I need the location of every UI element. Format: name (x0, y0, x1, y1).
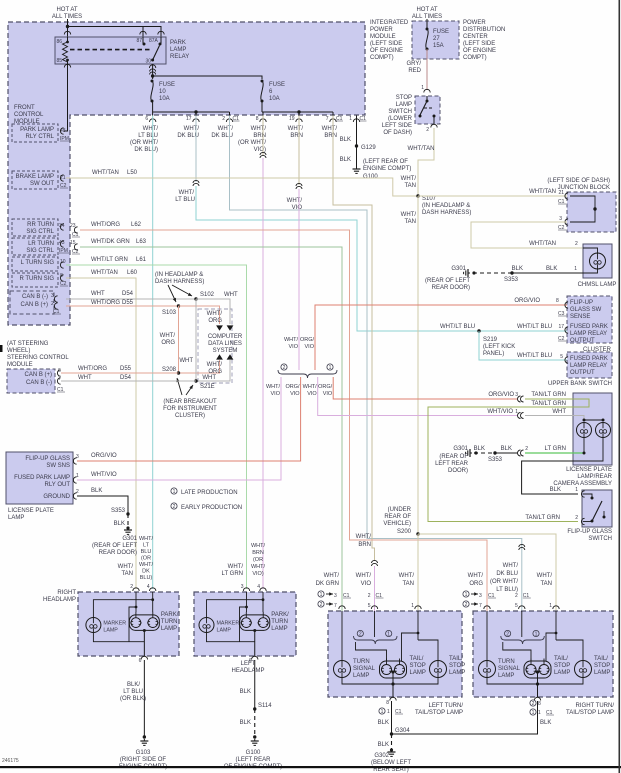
svg-text:G103: G103 (136, 750, 151, 756)
svg-text:FUSE: FUSE (433, 29, 449, 35)
right headlamp bottom pin (141, 656, 147, 659)
junction dot G103 (143, 735, 146, 738)
svg-text:WHT/: WHT/ (139, 536, 154, 542)
FCM sub-box LR TURN SIG CTRL pin 43 / 15 C2 (12, 238, 58, 255)
connector on relay output (150, 69, 156, 72)
right tail lamp brace (501, 636, 545, 644)
svg-text:STOP: STOP (449, 663, 465, 669)
front control module (FCM) body fill (8, 22, 365, 325)
svg-text:MODULE: MODULE (14, 119, 40, 125)
svg-text:(LOWER: (LOWER (388, 116, 413, 122)
flip-up switch pin2 arc (581, 518, 584, 524)
svg-text:G100: G100 (246, 750, 261, 756)
svg-text:(UNDER: (UNDER (388, 507, 412, 513)
svg-text:1: 1 (421, 85, 424, 91)
svg-text:LAMP: LAMP (103, 628, 118, 634)
svg-text:FUSED PARK: FUSED PARK (570, 356, 608, 362)
svg-text:2: 2 (222, 116, 225, 122)
svg-text:SIG CTRL: SIG CTRL (26, 248, 54, 254)
svg-text:LAMP: LAMP (396, 102, 412, 108)
svg-text:TAN: TAN (404, 219, 416, 225)
svg-text:LAMP: LAMP (8, 515, 24, 521)
svg-text:LAMP: LAMP (161, 626, 177, 632)
svg-text:WHT/: WHT/ (228, 564, 244, 570)
svg-text:1: 1 (387, 632, 390, 638)
svg-text:TURN: TURN (353, 659, 370, 665)
svg-text:5: 5 (560, 354, 563, 360)
svg-text:RIGHT: RIGHT (57, 590, 76, 596)
svg-text:L50: L50 (127, 170, 138, 176)
connector col4 (260, 152, 266, 155)
left tail lamp wire pin1 down (417, 611, 419, 640)
svg-text:WHT/: WHT/ (184, 126, 200, 132)
relay coil bottom pin arc (64, 64, 70, 67)
svg-text:TAN/LT GRN: TAN/LT GRN (531, 392, 566, 398)
FCM sub-box RR TURN SIG CTRL pin 34 / 23 C1 (12, 219, 58, 236)
svg-text:PARK/: PARK/ (271, 612, 289, 618)
wire BLK right tail to G304 (392, 701, 538, 734)
wire BLK CHMSL to S353b (512, 272, 583, 274)
svg-text:HOT AT: HOT AT (416, 7, 437, 13)
left tail lamp circled variants (357, 630, 363, 636)
left tail lamp wire pin5 into brace (374, 611, 376, 637)
ground G302 (391, 750, 393, 752)
svg-text:G301: G301 (451, 266, 466, 272)
junction S107 (416, 194, 419, 197)
FCM dashed border (8, 22, 365, 325)
svg-text:TURN: TURN (498, 659, 515, 665)
svg-text:LAMP/REAR: LAMP/REAR (577, 474, 612, 480)
connector col5 (296, 183, 302, 186)
wire rail to fuses (153, 76, 262, 79)
svg-text:(LEFT KICK: (LEFT KICK (483, 344, 515, 350)
svg-text:BLK: BLK (378, 742, 389, 748)
svg-text:MARKER: MARKER (217, 621, 240, 627)
svg-text:STOP: STOP (410, 663, 426, 669)
svg-text:15A: 15A (433, 43, 444, 49)
svg-text:BRN: BRN (358, 542, 371, 548)
svg-text:VIO): VIO) (252, 571, 263, 577)
power distribution center box (412, 21, 459, 59)
wire relay 30 output (152, 64, 154, 76)
svg-text:(AT STEERING: (AT STEERING (7, 341, 49, 347)
left headlamp park/turn dual bulb (240, 615, 270, 631)
svg-text:TAIL/: TAIL/ (410, 656, 424, 662)
license plate lamp box (6, 452, 73, 504)
svg-text:2: 2 (76, 489, 79, 495)
svg-text:PARK LAMP: PARK LAMP (20, 127, 54, 133)
svg-text:CLUSTER): CLUSTER) (175, 413, 205, 419)
svg-text:MODULE: MODULE (7, 362, 33, 368)
svg-text:2: 2 (283, 365, 286, 371)
svg-text:WHT/: WHT/ (143, 126, 159, 132)
wire ORG/VIO cluster pin8 to variant brace (315, 305, 567, 370)
svg-text:LT BLU: LT BLU (175, 197, 195, 203)
connector right tail pin5 wire (519, 544, 525, 547)
svg-text:LAMP: LAMP (170, 47, 186, 53)
svg-text:HEADLAMP: HEADLAMP (43, 597, 76, 603)
right tail lamp wire pin1 to right bulb (556, 640, 583, 661)
wire LT GRN to camera (525, 452, 584, 454)
wire BLK license ground to S353 (77, 496, 128, 514)
wire WHT/DK BLU col3 to right tail pin5 (230, 116, 522, 612)
svg-text:G304: G304 (395, 728, 410, 734)
svg-text:JUNCTION BLOCK: JUNCTION BLOCK (558, 185, 610, 191)
right tail lamp pin3 label (463, 591, 469, 597)
svg-text:WHT: WHT (224, 292, 238, 298)
variant brace (278, 370, 337, 378)
svg-text:FUSE: FUSE (159, 82, 175, 88)
right tail lamp bottom pin (534, 697, 540, 700)
svg-text:PARK: PARK (170, 40, 186, 46)
svg-text:SW OUT: SW OUT (30, 181, 54, 187)
svg-text:8: 8 (256, 116, 259, 122)
svg-text:(REAR OF LEFT: (REAR OF LEFT (425, 278, 470, 284)
svg-text:S21E: S21E (200, 384, 215, 390)
svg-text:G302: G302 (374, 753, 389, 759)
svg-text:WHT/: WHT/ (401, 176, 417, 182)
svg-text:BLK: BLK (240, 720, 251, 726)
svg-text:WHT/: WHT/ (218, 126, 234, 132)
svg-text:G100: G100 (363, 174, 378, 180)
svg-text:SIGNAL: SIGNAL (498, 666, 521, 672)
right headlamp stub pin a to ground drop (129, 607, 136, 642)
svg-text:HEADLAMP: HEADLAMP (231, 668, 264, 674)
svg-text:VEHICLE): VEHICLE) (383, 521, 411, 527)
left headlamp wire pin b to park filament (262, 592, 264, 612)
relay armature (153, 46, 160, 61)
svg-text:RELAY: RELAY (170, 54, 189, 60)
triangles up (216, 354, 223, 359)
svg-text:LICENSE PLATE: LICENSE PLATE (566, 467, 612, 473)
junction S219 (477, 329, 480, 332)
svg-text:S353: S353 (488, 457, 503, 463)
FCM sub-box CAN B (10, 291, 54, 314)
svg-text:6: 6 (145, 116, 148, 122)
wire BLK dashed S353b to G301b (472, 272, 512, 274)
svg-text:FLIP-UP: FLIP-UP (570, 300, 593, 306)
junction S114 (253, 707, 256, 710)
svg-text:BLK: BLK (340, 137, 351, 143)
right headlamp bottom rail (93, 633, 144, 642)
svg-text:BLU): BLU) (140, 575, 153, 581)
svg-text:2: 2 (575, 515, 578, 521)
right headlamp marker lamp bulb (86, 618, 101, 633)
svg-text:OF DASH): OF DASH) (383, 130, 412, 136)
circled 1 right (327, 364, 333, 370)
svg-text:LAMP: LAMP (353, 673, 369, 679)
FCM sub-box R TURN SIG pin 8 C2 (12, 273, 58, 287)
wire BLK dashed G304 to G302 (391, 734, 393, 750)
right headlamp park/turn dual bulb (129, 615, 159, 631)
svg-text:TAN: TAN (402, 581, 414, 587)
svg-text:VIO: VIO (289, 344, 299, 350)
stop lamp switch box (415, 96, 440, 124)
svg-text:(REAR OF LEFT: (REAR OF LEFT (92, 543, 137, 549)
svg-text:TAN: TAN (404, 183, 416, 189)
junction S208 (177, 371, 180, 374)
svg-text:REAR DOOR): REAR DOOR) (432, 285, 470, 291)
junction S353 (second) (510, 271, 513, 274)
FCM sub-box PARK LAMP RLY CTRL pin 48 (12, 124, 58, 142)
FCM output pin 7 (330, 119, 336, 122)
svg-text:WHT/: WHT/ (118, 564, 134, 570)
svg-text:WHT/TAN: WHT/TAN (92, 170, 119, 176)
svg-text:BLK: BLK (240, 689, 251, 695)
relay contact 87A (159, 43, 162, 46)
left headlamp wire pin a to turn filament (246, 592, 248, 612)
cluster pin 8 C3 (565, 302, 568, 308)
right headlamp box (78, 592, 179, 656)
junction S102 (194, 297, 197, 300)
connector left tail pin2 wire (372, 560, 378, 563)
svg-text:LEFT REAR: LEFT REAR (435, 461, 469, 467)
svg-text:SIG CTRL: SIG CTRL (26, 229, 54, 235)
svg-text:SYSTEM: SYSTEM (213, 348, 238, 354)
wire WHT/ORG from box to S208 (179, 360, 220, 373)
svg-text:CAN B (+): CAN B (+) (24, 372, 52, 378)
svg-text:8: 8 (538, 701, 541, 707)
FCM output pin 6 (150, 119, 156, 122)
wire WHT/TAN S200 to left tail pin1 (417, 534, 419, 611)
connector camera pin1 (518, 413, 521, 419)
svg-text:WHT/DK GRN: WHT/DK GRN (91, 239, 130, 245)
svg-text:2: 2 (359, 632, 362, 638)
right tail lamp tail/stop bulb 2 (575, 661, 592, 678)
svg-text:VIO: VIO (271, 391, 281, 397)
svg-text:VIO: VIO (323, 391, 333, 397)
wire WHT from box to S21E (196, 360, 230, 381)
svg-text:3: 3 (51, 293, 54, 299)
svg-text:TAN/LT GRN: TAN/LT GRN (531, 401, 566, 407)
svg-text:19: 19 (289, 116, 295, 122)
svg-text:(OR WHT/: (OR WHT/ (238, 140, 266, 146)
svg-text:5: 5 (515, 603, 518, 609)
note early production (171, 503, 177, 509)
relay pin 30 bottom arc (149, 65, 155, 68)
svg-text:TURN: TURN (271, 619, 288, 625)
svg-text:TAIL/: TAIL/ (554, 656, 568, 662)
svg-text:L62: L62 (131, 222, 142, 228)
svg-text:DOOR): DOOR) (448, 468, 468, 474)
svg-text:7: 7 (326, 116, 329, 122)
svg-text:TAIL/STOP LAMP: TAIL/STOP LAMP (566, 710, 614, 716)
svg-text:SWITCH: SWITCH (588, 536, 612, 542)
svg-text:BLK: BLK (512, 266, 523, 272)
svg-text:2: 2 (525, 446, 528, 452)
svg-text:DK BLU): DK BLU) (134, 147, 158, 153)
svg-text:RLY CTRL: RLY CTRL (26, 134, 55, 140)
triangles down (216, 325, 223, 330)
svg-text:1: 1 (320, 592, 323, 598)
arrow to S208 (177, 378, 182, 395)
svg-text:COMPT): COMPT) (463, 55, 487, 61)
svg-text:(NEAR BREAKOUT: (NEAR BREAKOUT (163, 399, 217, 405)
left tail lamp wire pin3 to turn bulb (341, 611, 343, 661)
wire WHT/TAN L50 brake lamp sw out to S107 (66, 178, 418, 196)
svg-text:21: 21 (558, 190, 564, 196)
svg-text:2: 2 (368, 593, 371, 599)
wire BLK dashed S114 to G100 (254, 709, 256, 737)
svg-text:WHT: WHT (78, 375, 92, 381)
junction S200 (416, 532, 419, 535)
svg-text:POWER: POWER (463, 20, 486, 26)
svg-text:POWER: POWER (370, 27, 393, 33)
left tail lamp wire pin1 to right bulb (418, 640, 438, 661)
svg-text:OF ENGINE: OF ENGINE (370, 48, 403, 54)
wire WHT/TAN S200 to right tail pin1 (418, 534, 556, 611)
svg-text:(REAR OF: (REAR OF (439, 454, 468, 460)
wire WHT/LT BLU S219 to upper bank switch (479, 331, 567, 360)
upper bank pin 5 (565, 357, 568, 363)
left tail lamp tail/stop bulb 2 (430, 661, 447, 678)
svg-text:CENTER: CENTER (463, 34, 488, 40)
svg-text:17: 17 (186, 116, 192, 122)
ground G103 (143, 739, 145, 741)
svg-text:BLK: BLK (546, 266, 557, 272)
svg-text:(BELOW LEFT: (BELOW LEFT (371, 760, 411, 766)
svg-text:LAMP: LAMP (498, 673, 514, 679)
svg-text:1: 1 (349, 116, 352, 122)
svg-text:S353: S353 (111, 508, 126, 514)
right tail lamp box (473, 611, 613, 697)
svg-text:VIO: VIO (307, 391, 317, 397)
wire WHT/ORG S103 into computer data lines box (179, 306, 220, 324)
svg-text:WHT/TAN: WHT/TAN (529, 189, 556, 195)
left headlamp box (194, 592, 296, 656)
steering control module box (7, 369, 55, 393)
right tail lamp circled variants (505, 630, 511, 636)
svg-text:REAR DOOR): REAR DOOR) (99, 550, 137, 556)
wire WHT/VIO variant2 to license plate pin1 (77, 377, 281, 480)
svg-text:COMPT): COMPT) (370, 55, 394, 61)
svg-text:D54: D54 (120, 375, 132, 381)
svg-text:FUSED PARK: FUSED PARK (570, 324, 608, 330)
svg-text:LAMP: LAMP (449, 670, 465, 676)
svg-text:S219: S219 (483, 337, 498, 343)
left headlamp bottom pin (252, 656, 258, 659)
svg-text:1: 1 (387, 709, 390, 715)
svg-text:WHEEL): WHEEL) (7, 348, 30, 354)
ground G100 bottom (254, 739, 256, 741)
svg-text:BLK: BLK (340, 157, 351, 163)
svg-text:(IN HEADLAMP &: (IN HEADLAMP & (155, 272, 203, 278)
svg-text:85: 85 (56, 58, 62, 64)
svg-text:BLU: BLU (141, 549, 152, 555)
svg-text:S200: S200 (397, 529, 412, 535)
camera bulb 1 (577, 423, 592, 438)
svg-text:S353: S353 (504, 277, 519, 283)
svg-text:G301: G301 (453, 446, 468, 452)
left headlamp marker lamp bulb (199, 618, 214, 633)
flip-up switch pin1 arc (581, 491, 584, 497)
FCM output pin 19 (296, 119, 302, 122)
left tail lamp bottom pin (390, 697, 396, 700)
svg-text:UPPER BANK SWITCH: UPPER BANK SWITCH (548, 381, 612, 387)
fuse 27 (426, 28, 429, 31)
wire WHT/ORG L62 to right tail pin3 (80, 230, 487, 611)
svg-text:DASH HARNESS): DASH HARNESS) (155, 279, 204, 285)
svg-text:LT: LT (143, 543, 150, 549)
svg-text:GLASS SW: GLASS SW (570, 307, 602, 313)
wire BLK/LT BLU right headlamp to G103 (143, 660, 145, 737)
wire GRY/RED fuse27 to stop lamp switch (426, 49, 428, 90)
svg-text:WHT: WHT (202, 375, 216, 381)
svg-text:WHT: WHT (179, 358, 193, 364)
svg-text:OUTPUT: OUTPUT (570, 370, 595, 376)
wire BLK FCM to G129 (356, 116, 358, 147)
svg-text:1: 1 (329, 365, 332, 371)
svg-text:87A: 87A (149, 38, 159, 44)
svg-text:ORG/VIO: ORG/VIO (514, 298, 540, 304)
svg-text:D54: D54 (122, 291, 134, 297)
arrow to S21E (186, 385, 193, 395)
svg-text:CAN B (+): CAN B (+) (20, 302, 48, 308)
left headlamp wire pin b to marker (207, 600, 264, 618)
arrow to S102 (172, 285, 192, 296)
svg-text:WHT/: WHT/ (356, 534, 372, 540)
wire WHT/BRN col4 to left headlamp pin4 (262, 116, 264, 156)
svg-text:MARKER: MARKER (103, 621, 126, 627)
wire WHT/DK BLU col2 upper (195, 116, 197, 183)
svg-text:BRN: BRN (324, 133, 337, 139)
svg-text:LICENSE PLATE: LICENSE PLATE (8, 508, 54, 514)
wire WHT/TAN L60 to right headlamp pin2 (66, 278, 136, 589)
svg-text:REAR OF: REAR OF (384, 514, 411, 520)
svg-text:(RIGHT SIDE OF: (RIGHT SIDE OF (120, 757, 167, 763)
wire WHT/TAN stop switch to S107 (418, 128, 434, 196)
right tail lamp wire brace to oval left terminal (503, 642, 531, 661)
wire WHT/LT GRN L61 to left headlamp pin3 (66, 265, 247, 589)
wire WHT D54 to S102 (66, 298, 196, 300)
svg-text:G301: G301 (122, 536, 137, 542)
wire WHT/BRN col6 to left tail pin2 (333, 116, 375, 562)
left tail lamp wire pin1 to oval right terminal (402, 633, 419, 661)
cluster box (567, 296, 612, 343)
svg-text:BRAKE LAMP: BRAKE LAMP (16, 174, 54, 180)
svg-text:WHT/: WHT/ (207, 311, 223, 317)
svg-text:WHT/LT BLU: WHT/LT BLU (440, 324, 475, 330)
svg-text:BLK: BLK (540, 720, 551, 726)
junction dot G100b (253, 735, 256, 738)
svg-text:WHT/VIO: WHT/VIO (91, 472, 117, 478)
svg-text:WHT/: WHT/ (322, 126, 338, 132)
svg-text:WHT/ORG: WHT/ORG (78, 366, 107, 372)
svg-text:LAMP: LAMP (271, 626, 287, 632)
right tail bottom pin labels (530, 700, 536, 706)
svg-text:L63: L63 (136, 239, 147, 245)
connector camera pin3 (518, 396, 521, 402)
svg-text:S114: S114 (258, 703, 272, 709)
left tail lamp tail/stop dual bulb (380, 661, 407, 678)
wire BLK G301 S353 to LT GRN connector (474, 452, 495, 454)
wire WHT/ORG vertical S103-S208 (178, 306, 180, 373)
svg-text:COMPUTER: COMPUTER (208, 334, 243, 340)
svg-text:1: 1 (76, 473, 79, 479)
relay top pin arcs (64, 31, 70, 34)
svg-text:1: 1 (465, 592, 468, 598)
svg-text:(OR: (OR (253, 557, 263, 563)
right tail lamp turn signal bulb (479, 661, 496, 678)
svg-text:WHT/VIO: WHT/VIO (487, 409, 513, 415)
svg-text:D55: D55 (122, 300, 134, 306)
svg-text:2: 2 (506, 632, 509, 638)
camera bulbs top rail (584, 419, 603, 421)
svg-text:ORG/VIO: ORG/VIO (488, 392, 514, 398)
wire ORG/VIO variant2 to license plate pin3 (77, 377, 301, 461)
svg-text:CONTROL: CONTROL (14, 112, 44, 118)
fuse 6 (261, 80, 264, 83)
